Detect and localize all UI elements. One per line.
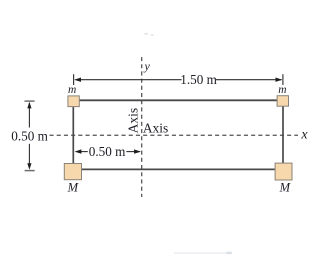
- svg-text:x: x: [300, 127, 308, 142]
- inner dimension 0.50 m: [75, 149, 141, 153]
- top dimension line 1.50 m: [74, 74, 283, 85]
- svg-text:m: m: [278, 84, 286, 96]
- svg-text:m: m: [68, 84, 76, 96]
- svg-text:0.50 m: 0.50 m: [11, 128, 48, 143]
- large mass M bottom-right: [275, 163, 292, 180]
- small mass m top-left: [68, 96, 79, 107]
- svg-text:y: y: [144, 59, 151, 73]
- svg-text:1.50 m: 1.50 m: [180, 72, 217, 87]
- svg-text:Axis: Axis: [125, 108, 140, 134]
- faint bottom line: [174, 252, 232, 255]
- faint specks top: [145, 33, 154, 36]
- rectangle bottom edge: [73, 168, 283, 170]
- rectangle left edge: [72, 100, 74, 169]
- rectangle right edge: [282, 100, 284, 169]
- small mass m top-right: [277, 96, 288, 107]
- svg-text:M: M: [279, 181, 291, 195]
- x axis dashed line: [50, 134, 299, 136]
- svg-text:Axis: Axis: [143, 121, 168, 136]
- left dimension 0.50 m: [25, 101, 35, 171]
- svg-text:0.50 m: 0.50 m: [89, 144, 126, 159]
- large mass M bottom-left: [64, 164, 81, 180]
- rectangle top edge: [73, 99, 283, 101]
- svg-text:M: M: [67, 180, 79, 194]
- y axis dashed line: [141, 57, 143, 197]
